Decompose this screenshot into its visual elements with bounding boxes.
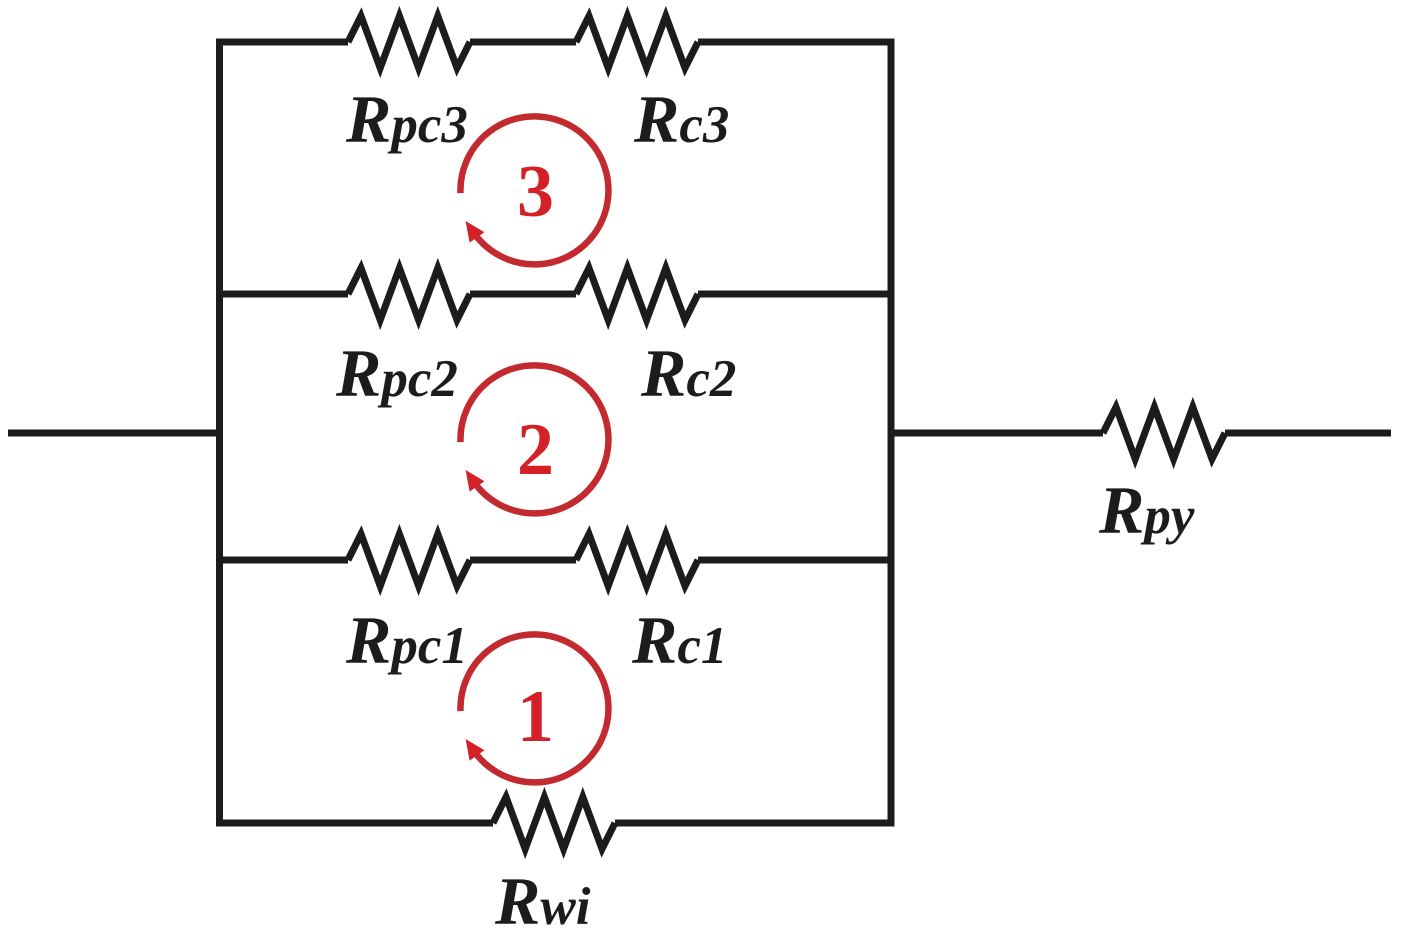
wire middle branch left bbox=[220, 291, 349, 298]
resistor Rc3 bbox=[576, 16, 698, 68]
node right bus wire bbox=[888, 42, 895, 823]
svg-text:3: 3 bbox=[517, 151, 554, 233]
wire right output right bbox=[1225, 430, 1391, 437]
resistor Rpc1 bbox=[348, 534, 470, 586]
wire left input bbox=[8, 430, 220, 437]
wire top branch left bbox=[220, 39, 349, 46]
wire top branch middle bbox=[470, 39, 576, 46]
wire third branch middle bbox=[470, 557, 576, 564]
svg-text:Rc1: Rc1 bbox=[631, 602, 727, 678]
svg-text:Rpy: Rpy bbox=[1098, 472, 1195, 548]
svg-text:Rpc1: Rpc1 bbox=[345, 602, 468, 678]
svg-text:Rc3: Rc3 bbox=[633, 81, 729, 157]
wire third branch right bbox=[698, 557, 891, 564]
svg-text:1: 1 bbox=[517, 676, 554, 758]
svg-text:Rc2: Rc2 bbox=[640, 335, 736, 411]
mesh loop arrow 1 bbox=[460, 634, 608, 782]
resistor Rpc2 bbox=[348, 268, 470, 320]
mesh loop arrow 2 bbox=[460, 365, 608, 513]
wire middle branch middle bbox=[470, 291, 576, 298]
resistor Rpc3 bbox=[348, 16, 470, 68]
mesh loop arrow 3 bbox=[460, 116, 608, 264]
resistor Rwi bbox=[493, 797, 615, 849]
svg-text:Rwi: Rwi bbox=[494, 863, 591, 939]
wire top branch right bbox=[698, 39, 891, 46]
wire middle branch right bbox=[698, 291, 891, 298]
wire bottom branch left bbox=[220, 820, 494, 827]
wire bottom branch right bbox=[615, 820, 891, 827]
resistor Rc2 bbox=[576, 268, 698, 320]
resistor Rc1 bbox=[576, 534, 698, 586]
svg-text:Rpc2: Rpc2 bbox=[335, 335, 458, 411]
wire right output left bbox=[891, 430, 1103, 437]
svg-text:2: 2 bbox=[517, 409, 554, 491]
node left bus wire bbox=[216, 42, 223, 823]
svg-text:Rpc3: Rpc3 bbox=[345, 81, 468, 157]
resistor Rpy bbox=[1103, 407, 1225, 459]
wire third branch left bbox=[220, 557, 349, 564]
